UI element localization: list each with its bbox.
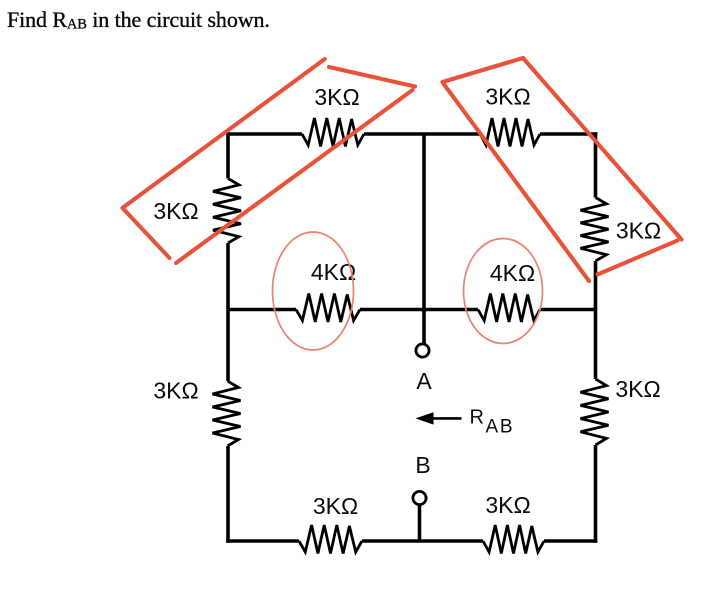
red slash box right: long right edge (523, 58, 682, 240)
svg-text:B: B (415, 452, 430, 478)
red slash box left: short left edge (123, 208, 170, 258)
wire bottom middle segment (362, 539, 483, 543)
node A terminal circle (416, 344, 429, 357)
wire top-right corner (540, 132, 597, 136)
red slash box right: short bottom edge (598, 241, 678, 275)
wire node B to bottom rail (418, 505, 422, 541)
svg-text:3KΩ: 3KΩ (153, 378, 198, 404)
resistor R1 3K ohm top-left zigzag (302, 118, 364, 147)
resistor R2 3K ohm top-right zigzag (480, 118, 540, 147)
arrow for R_AB pointing left (432, 417, 462, 420)
resistor R8 3K ohm right-lower vertical zigzag (581, 379, 609, 445)
svg-text:3KΩ: 3KΩ (485, 84, 530, 110)
red slash box right: long left edge (443, 83, 589, 281)
svg-text:3KΩ: 3KΩ (616, 218, 661, 244)
resistor R10 3K ohm bottom-right zigzag (483, 525, 544, 554)
resistor R9 3K ohm bottom-left zigzag (299, 525, 362, 554)
svg-text:3KΩ: 3KΩ (314, 84, 359, 110)
resistor R7 3K ohm left-lower vertical zigzag (213, 381, 241, 446)
wire center vertical from top rail to node A (422, 134, 426, 345)
wire right side lower segment (594, 445, 598, 543)
red slash box left: short top edge (329, 67, 415, 87)
wire left side between R3 and middle rail (226, 243, 230, 381)
wire left side lower segment (226, 446, 230, 543)
red ellipse around R5 (273, 232, 354, 350)
wire bottom-left segment (226, 539, 299, 543)
svg-text:3KΩ: 3KΩ (313, 493, 358, 519)
wire middle rail right segment (540, 308, 596, 312)
wire bottom-right segment (544, 539, 597, 543)
red slash box left: long bottom-right edge (176, 90, 413, 263)
wire top-left corner to TL resistor (226, 132, 230, 178)
svg-text:Find RAB in the circuit shown.: Find RAB in the circuit shown. (7, 7, 270, 33)
red ellipse around R6 (464, 239, 543, 344)
wire middle rail center segment (360, 308, 478, 312)
resistor R5 4K ohm middle-left zigzag (296, 294, 360, 323)
svg-text:4KΩ: 4KΩ (490, 260, 535, 286)
resistor R4 3K ohm right-upper vertical zigzag (581, 198, 609, 262)
red slash box left: long top-left edge (123, 59, 325, 208)
svg-text:3KΩ: 3KΩ (485, 492, 530, 518)
svg-text:A: A (416, 368, 432, 394)
wire right side between R4 and middle rail (594, 261, 598, 379)
red slash box right: short top-left edge (443, 58, 524, 82)
wire middle rail left segment (228, 308, 296, 312)
svg-text:3KΩ: 3KΩ (153, 198, 198, 224)
svg-text:3KΩ: 3KΩ (615, 376, 660, 402)
node B terminal circle (413, 491, 426, 504)
resistor R3 3K ohm left-upper vertical zigzag (213, 179, 241, 244)
resistor R6 4K ohm middle-right zigzag (478, 294, 540, 323)
wire top middle segment (364, 132, 480, 136)
